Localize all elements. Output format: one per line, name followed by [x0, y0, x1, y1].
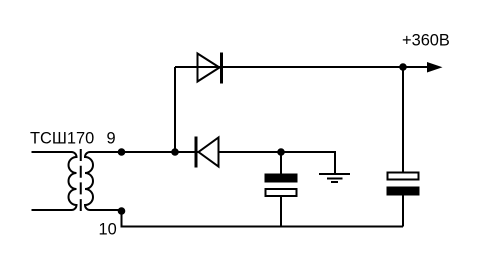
- node 9 junction dot: [118, 148, 126, 156]
- wire middle from node 9 to ground corner: [122, 151, 336, 153]
- secondary winding: [85, 152, 175, 210]
- wire bottom rail: [121, 226, 404, 228]
- junction dot at capacitor C1 tap: [277, 148, 285, 156]
- svg-text:10: 10: [99, 221, 117, 239]
- junction dot at vertical/middle wire: [171, 148, 179, 156]
- node 10 junction dot: [118, 207, 126, 215]
- diode VD2 (middle, pointing left): [196, 137, 219, 168]
- svg-text:9: 9: [107, 130, 116, 148]
- transformer T1 ТСШ170: [32, 149, 176, 211]
- ground: [319, 174, 350, 182]
- wire C2 bottom to rail: [402, 196, 404, 227]
- wire from node 10 down to bottom rail: [121, 211, 123, 227]
- wire down to C1: [280, 152, 282, 174]
- svg-text:+360В: +360В: [402, 32, 450, 50]
- diode VD1 (top, pointing right): [198, 53, 222, 84]
- junction dot top rail: [399, 63, 407, 71]
- primary winding: [32, 152, 77, 210]
- core: [80, 149, 82, 211]
- output arrow +360V: [427, 62, 443, 73]
- wire vertical from node 9 line up to top rail: [174, 67, 176, 152]
- svg-text:ТСШ170: ТСШ170: [30, 130, 94, 148]
- capacitor C2 (electrolytic, hollow top plate): [387, 173, 420, 196]
- wire from top rail down to C2: [402, 67, 404, 172]
- wire top rail to arrow: [175, 66, 429, 68]
- capacitor C1 (electrolytic, filled top plate): [265, 174, 298, 197]
- wire C1 bottom to rail: [280, 197, 282, 227]
- wire ground drop: [334, 151, 336, 174]
